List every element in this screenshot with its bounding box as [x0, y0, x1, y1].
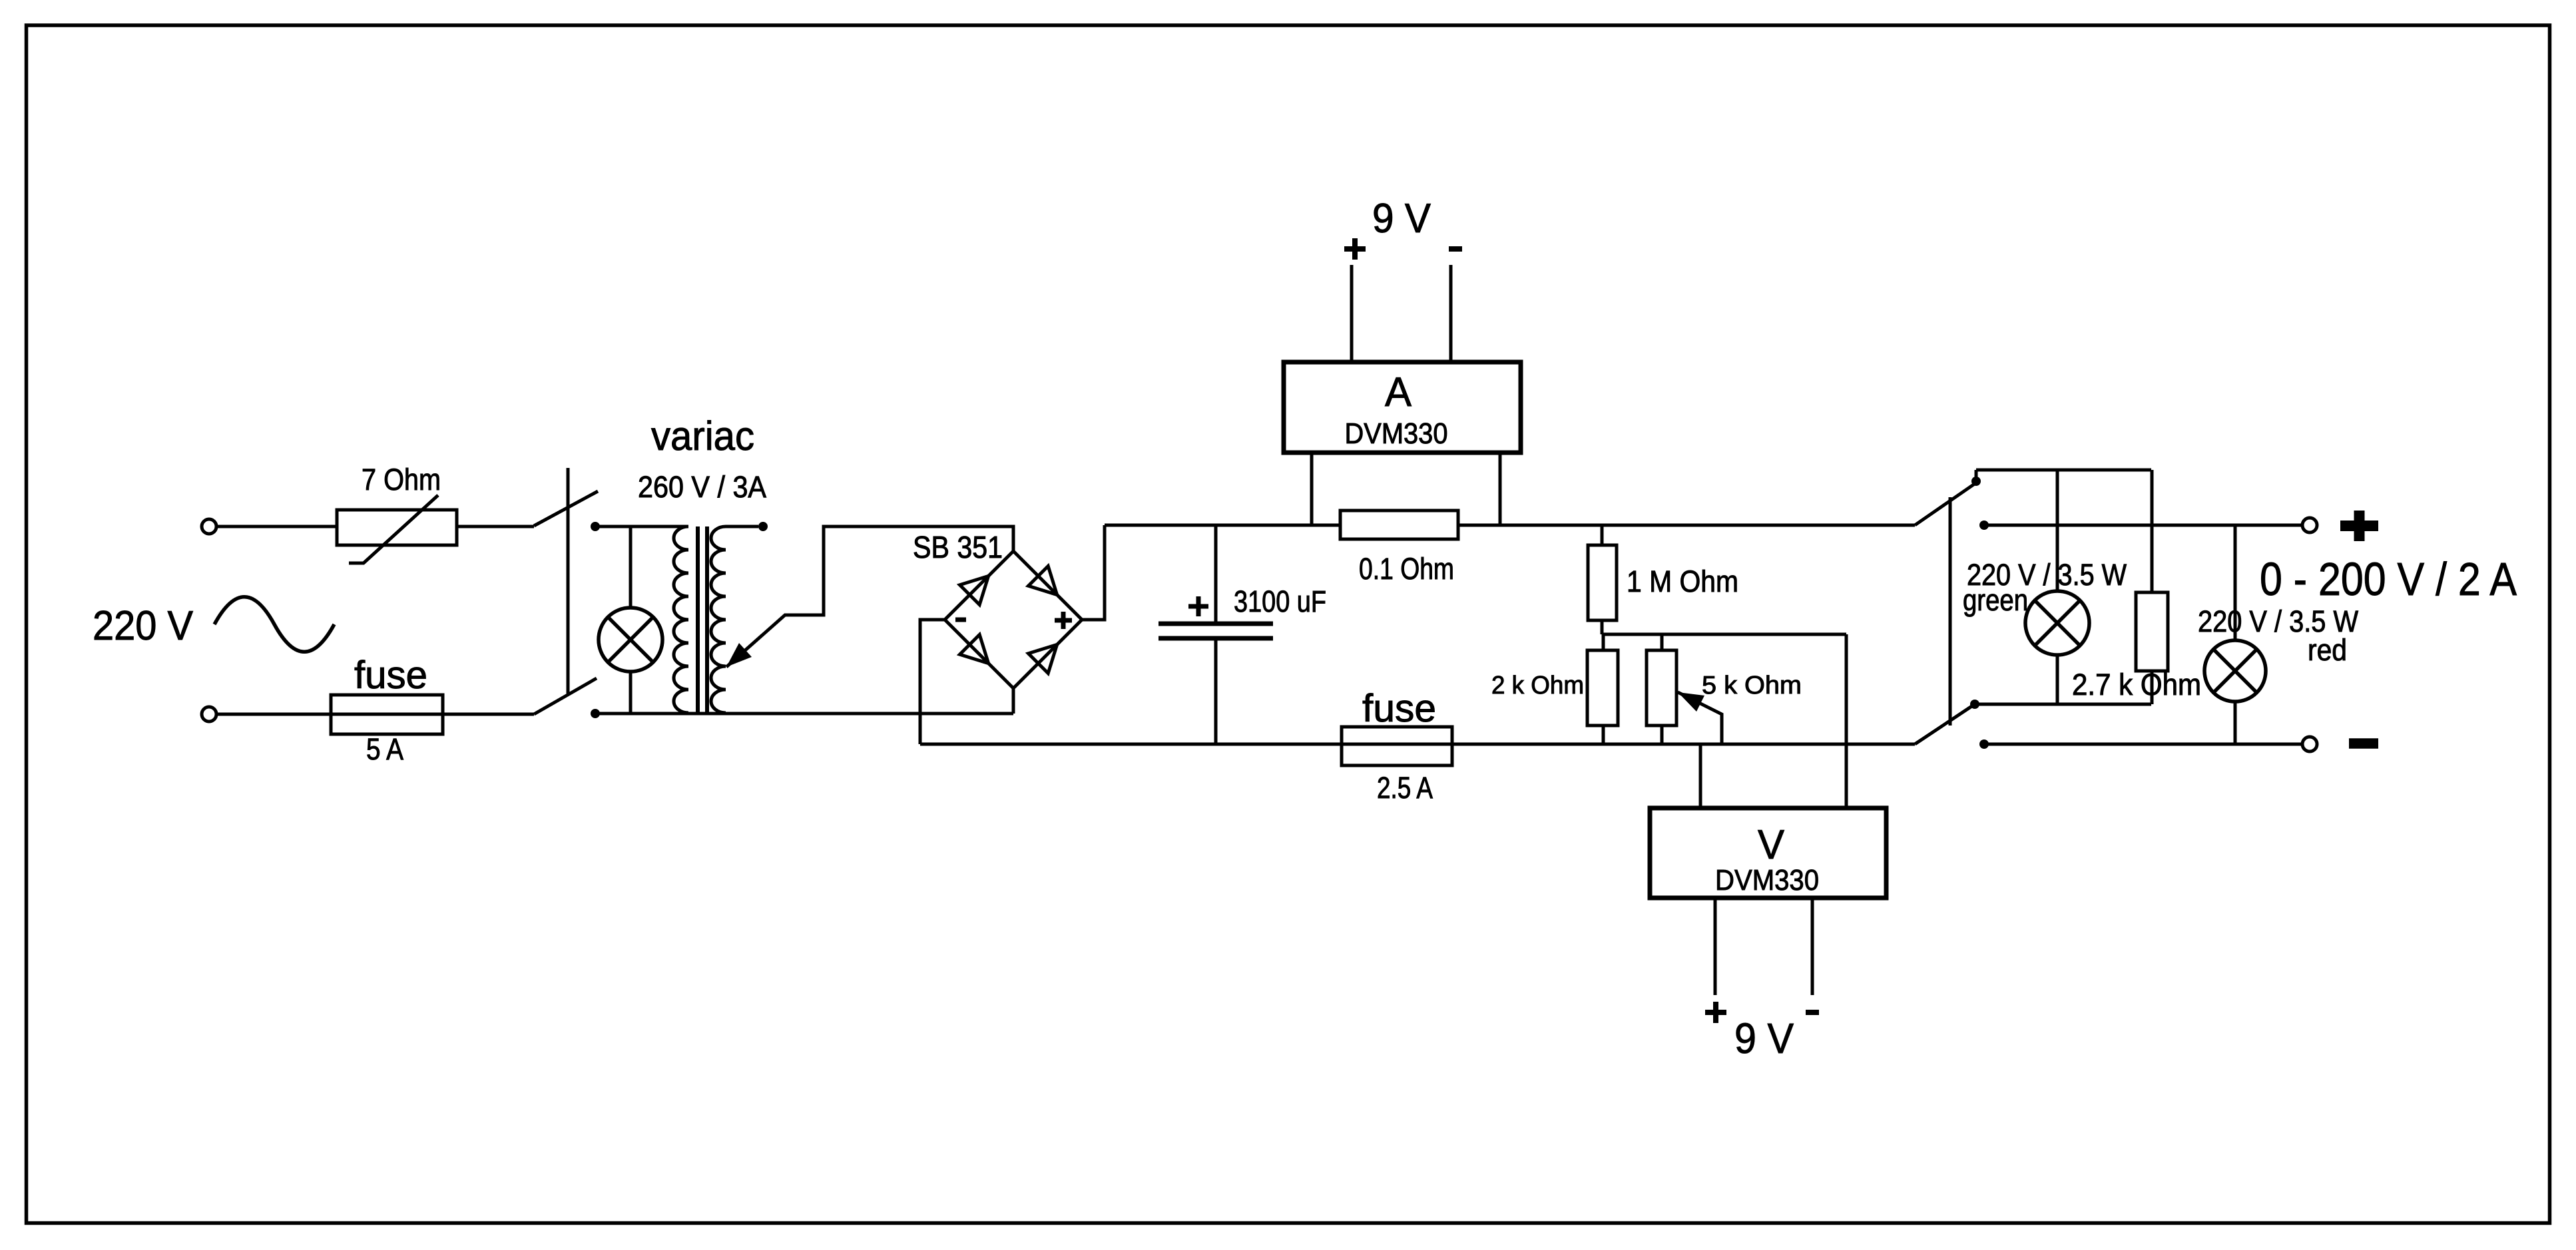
- node S2 contact lamp bottom: [1970, 700, 1979, 709]
- bridge rectifier SB 351 diamond: [945, 551, 1082, 688]
- svg-text:fuse: fuse: [1362, 687, 1436, 730]
- node S1 contact bottom: [591, 709, 600, 718]
- wire voltmeter right: [1845, 634, 1848, 808]
- diode D4 (bottom-right edge): [1029, 644, 1057, 673]
- variac wiper arrow: [726, 526, 1013, 667]
- diode D3 (left-bottom edge): [960, 635, 989, 664]
- wire ammeter left: [1310, 453, 1314, 525]
- wire bridge minus out: [920, 620, 945, 744]
- fuse 5 A: [331, 654, 443, 766]
- svg-text:9 V: 9 V: [1372, 196, 1431, 242]
- label red lamp rating: [2198, 604, 2358, 638]
- wire 2k bottom: [1602, 726, 1605, 744]
- svg-text:V: V: [1758, 822, 1785, 868]
- label green lamp rating: [1967, 558, 2127, 592]
- switch S1 blade top: [534, 491, 598, 526]
- wire output minus: [1984, 743, 2304, 746]
- label red: [2308, 633, 2347, 667]
- svg-text:DVM330: DVM330: [1345, 417, 1448, 450]
- label output range: [2260, 553, 2517, 605]
- wire voltmeter left: [1699, 744, 1702, 808]
- svg-text:SB 351: SB 351: [913, 530, 1003, 564]
- wire capacitor bottom: [1214, 638, 1218, 744]
- svg-text:2.7 k Ohm: 2.7 k Ohm: [2072, 668, 2201, 702]
- wire S1 to variac primary: [595, 525, 688, 528]
- symbol output minus: [2349, 738, 2378, 749]
- wire lamp network bottom rail: [1975, 703, 2151, 706]
- capacitor C1 3100 uF plates: [1159, 624, 1273, 638]
- node S2 output plus: [1979, 521, 1989, 530]
- battery 9 V (ammeter): [1344, 196, 1462, 260]
- wire red lamp bottom: [2234, 702, 2237, 744]
- wire 1M bottom: [1601, 620, 1604, 634]
- wire red lamp top: [2234, 525, 2237, 640]
- ammeter A DVM330: [1284, 362, 1521, 453]
- wire ammeter supply plus: [1350, 265, 1354, 362]
- label 2.7 k Ohm: [2072, 668, 2201, 702]
- lamp LA3 red: [2204, 640, 2266, 702]
- source label 220 V AC: [93, 603, 194, 649]
- lamp LA1 (variac pilot): [599, 608, 662, 672]
- wire green lamp top: [2056, 470, 2059, 592]
- node secondary top end: [758, 522, 768, 531]
- wire voltmeter supply minus: [1811, 898, 1814, 995]
- svg-text:9 V: 9 V: [1734, 1014, 1794, 1062]
- diode D1 (left-top edge): [960, 576, 989, 604]
- label 260 V / 3A: [638, 470, 766, 504]
- label 3100 uF: [1234, 584, 1326, 618]
- wire 2.7k bottom: [2151, 671, 2154, 704]
- svg-text:2 k Ohm: 2 k Ohm: [1491, 672, 1584, 700]
- wire bridge AC bottom: [1012, 688, 1015, 714]
- node S2 output minus: [1979, 739, 1989, 749]
- svg-text:red: red: [2308, 633, 2347, 667]
- wire junction bar: [1602, 633, 1846, 636]
- label capacitor plus: [1188, 596, 1208, 616]
- svg-text:7 Ohm: 7 Ohm: [362, 463, 441, 497]
- wire 2.7k top: [2151, 470, 2154, 592]
- wire voltmeter supply plus: [1714, 898, 1717, 995]
- battery 9 V (voltmeter): [1705, 1002, 1819, 1062]
- wire secondary top terminal: [726, 525, 758, 528]
- node output terminal plus: [2302, 518, 2317, 532]
- switch S1 blade bottom: [534, 678, 597, 714]
- symbol output plus: [2340, 511, 2378, 541]
- svg-text:260 V / 3A: 260 V / 3A: [638, 470, 766, 504]
- svg-text:2.5 A: 2.5 A: [1377, 771, 1433, 805]
- wire 2k top: [1602, 634, 1605, 650]
- fuse 2.5 A: [1342, 687, 1452, 805]
- node input terminal top: [202, 519, 216, 534]
- resistor 2.7 k Ohm: [2136, 592, 2168, 671]
- node output terminal minus: [2302, 737, 2317, 751]
- wire input bottom: [216, 713, 534, 716]
- svg-text:0 - 200 V / 2 A: 0 - 200 V / 2 A: [2260, 553, 2517, 605]
- svg-text:5 A: 5 A: [366, 732, 403, 766]
- wire positive rail right: [1458, 524, 1915, 527]
- resistor 1 M Ohm: [1588, 545, 1738, 620]
- switch S2 link bar: [1949, 497, 1952, 726]
- wire negative rail: [920, 743, 1915, 746]
- node S2 contact lamp top: [1971, 477, 1981, 486]
- svg-text:DVM330: DVM330: [1715, 864, 1819, 897]
- switch S1 link bar: [567, 468, 570, 694]
- svg-text:3100 uF: 3100 uF: [1234, 584, 1326, 618]
- diode D2 (top-right edge): [1029, 566, 1057, 595]
- svg-text:A: A: [1385, 369, 1412, 415]
- wire ammeter supply minus: [1449, 265, 1453, 362]
- wire 5k top: [1661, 634, 1664, 650]
- lamp LA2 green: [2025, 591, 2089, 655]
- wire output plus: [1984, 524, 2304, 527]
- node S1 contact top: [591, 522, 600, 531]
- wire lamp branch bottom: [629, 670, 633, 714]
- svg-text:5 k Ohm: 5 k Ohm: [1702, 672, 1802, 700]
- wire 1M top: [1601, 525, 1604, 545]
- wire S2 contact stub top: [1975, 470, 1978, 481]
- wire lamp branch top: [629, 526, 633, 609]
- svg-text:220 V: 220 V: [93, 603, 194, 649]
- voltmeter V DVM330: [1650, 808, 1886, 898]
- label bridge minus: [955, 618, 966, 622]
- wire capacitor top: [1214, 525, 1218, 624]
- wire variac bottom: [595, 712, 1013, 716]
- resistor 0.1 Ohm shunt: [1340, 511, 1458, 586]
- svg-text:0.1 Ohm: 0.1 Ohm: [1359, 552, 1454, 586]
- AC sine symbol: [214, 597, 334, 652]
- transformer T1 secondary coil: [711, 526, 726, 713]
- transformer T1 core: [698, 526, 707, 713]
- wire positive rail left: [1105, 524, 1340, 527]
- potentiometer 5 k Ohm: [1647, 650, 1802, 726]
- wire bridge plus out: [1082, 525, 1105, 620]
- potentiometer wiper arrow: [1678, 692, 1722, 744]
- node input terminal bottom: [202, 707, 216, 722]
- label bridge plus: [1055, 612, 1072, 629]
- label SB 351: [913, 530, 1003, 564]
- resistor 2 k Ohm: [1491, 650, 1618, 726]
- wire lamp network top rail: [1976, 469, 2151, 472]
- svg-text:fuse: fuse: [354, 654, 427, 697]
- transformer T1 primary coil: [674, 526, 688, 713]
- wire green lamp bottom: [2056, 655, 2059, 704]
- svg-text:variac: variac: [651, 413, 754, 459]
- wire ammeter right: [1499, 453, 1502, 525]
- svg-text:green: green: [1963, 583, 2028, 617]
- switch S2 blade bottom: [1915, 704, 1975, 744]
- resistor 7 Ohm (NTC): [337, 463, 457, 563]
- label green: [1963, 583, 2028, 617]
- switch S2 blade top: [1915, 482, 1977, 525]
- wire bridge AC top: [1012, 526, 1015, 551]
- wire 7 Ohm to switch S1: [457, 525, 534, 528]
- wire 5k bottom: [1661, 726, 1664, 744]
- wire input top: [216, 525, 337, 528]
- label variac: [651, 413, 754, 459]
- svg-text:1 M Ohm: 1 M Ohm: [1627, 564, 1738, 598]
